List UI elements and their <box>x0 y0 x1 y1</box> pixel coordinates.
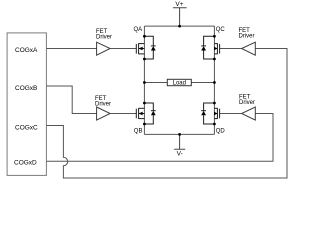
wire driver1 output to QA gate <box>110 48 136 50</box>
node dot load right <box>213 81 216 84</box>
wire COGxC to driver3 input (with hop over COGxD wire) <box>46 49 287 179</box>
wire left bridge column <box>143 26 145 134</box>
wire top rail <box>144 25 214 27</box>
svg-text:Load: Load <box>173 81 186 87</box>
wire right bridge column <box>213 26 215 134</box>
transistor QC <box>201 36 219 59</box>
wire COGxA to driver1 input <box>46 48 96 50</box>
transistor QB <box>136 103 155 124</box>
svg-text:Driver: Driver <box>96 35 112 41</box>
wire driver4 output to QD gate <box>220 113 242 115</box>
wire driver3 output to QC gate <box>220 48 242 50</box>
transistor QA <box>136 36 155 59</box>
svg-text:QC: QC <box>216 27 226 33</box>
wire COGxB to driver2 input <box>46 86 96 114</box>
svg-text:Driver: Driver <box>239 34 255 40</box>
wire bottom rail <box>144 133 214 135</box>
svg-text:QD: QD <box>216 129 226 135</box>
load R1 <box>167 79 191 85</box>
node dot load left <box>143 81 146 84</box>
svg-text:Driver: Driver <box>239 100 255 106</box>
svg-text:QB: QB <box>134 129 143 135</box>
transistor QD <box>201 103 219 124</box>
svg-text:Driver: Driver <box>95 102 111 108</box>
wire load rail <box>144 82 214 84</box>
COG block U1 <box>7 33 46 176</box>
node dot V+ tap <box>178 25 181 28</box>
svg-text:COGxB: COGxB <box>15 85 37 92</box>
svg-text:COGxC: COGxC <box>15 125 38 132</box>
svg-text:COGxA: COGxA <box>15 47 38 54</box>
svg-text:V-: V- <box>177 151 183 158</box>
svg-text:COGxD: COGxD <box>14 159 37 166</box>
svg-text:QA: QA <box>134 27 143 33</box>
node dot V- tap <box>178 133 181 136</box>
wire COGxD to driver4 input <box>46 114 273 162</box>
wire driver2 output to QB gate <box>110 113 136 115</box>
svg-text:V+: V+ <box>175 1 183 8</box>
V- supply <box>174 134 185 149</box>
